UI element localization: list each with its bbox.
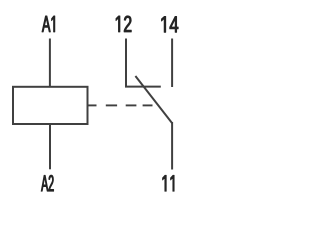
coil K1 [13, 87, 88, 124]
label 11 [163, 175, 175, 191]
wire 14 NO contact [171, 39, 173, 88]
label 12 [116, 16, 131, 32]
wire 12 to NC contact [125, 39, 127, 87]
label A2 [41, 175, 53, 191]
mechanical link dashed segment 4 [143, 104, 153, 106]
label 14 [162, 16, 179, 32]
wire coil to A2 [49, 124, 51, 169]
NC fixed contact bar [125, 86, 161, 88]
mechanical link dashed segment 2 [106, 104, 117, 106]
mechanical link dashed segment 3 [126, 104, 137, 106]
wire A1 to coil [49, 39, 51, 87]
wire arm to 11 [171, 122, 173, 170]
label A1 [42, 16, 55, 32]
mechanical link dashed segment 1 [88, 104, 96, 106]
movable contact arm [135, 76, 172, 123]
